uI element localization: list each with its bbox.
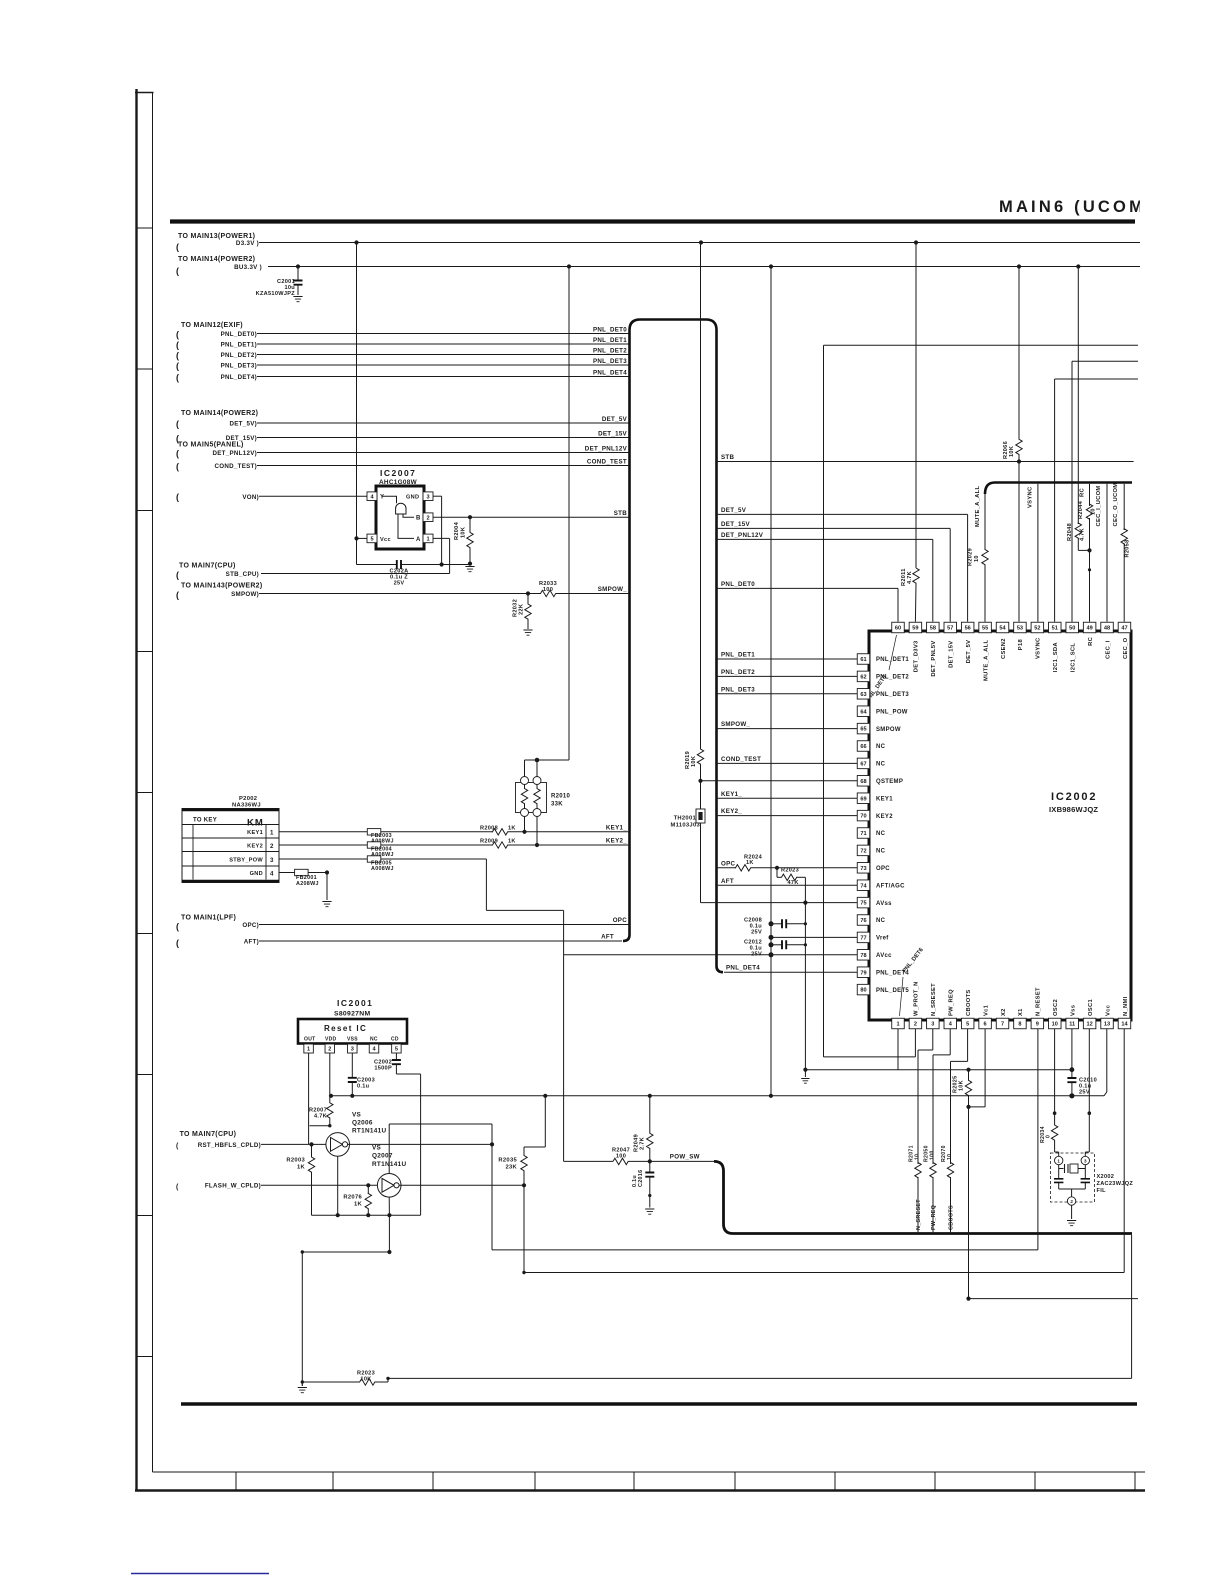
svg-text:69: 69 xyxy=(860,796,866,802)
svg-text:OPC): OPC) xyxy=(242,922,259,929)
svg-text:80: 80 xyxy=(860,988,866,994)
junction BU3.3V / R2066 xyxy=(1017,264,1021,268)
svg-text:R2048: R2048 xyxy=(1067,523,1073,541)
svg-text:KEY1_: KEY1_ xyxy=(606,824,627,831)
wire IC2001 OUT drop xyxy=(308,1053,310,1144)
svg-text:R2058: R2058 xyxy=(1125,540,1131,558)
junction R2004 top xyxy=(468,515,472,519)
resistor R2035 23K xyxy=(544,1096,546,1147)
svg-text:KEY2: KEY2 xyxy=(876,814,893,820)
wire KEY1 from P2002 xyxy=(279,831,493,833)
svg-text:ZAC23WJQZ: ZAC23WJQZ xyxy=(1097,1181,1134,1187)
svg-text:SMPOW_: SMPOW_ xyxy=(598,586,628,593)
resistor R2044 10 xyxy=(1086,504,1092,519)
svg-text:(: ( xyxy=(176,361,179,371)
border frame bottom inner ruler xyxy=(153,1471,1146,1473)
svg-text:IC2007: IC2007 xyxy=(380,468,416,478)
IC2002 pin 4 box xyxy=(944,1018,957,1029)
svg-text:SMPOW: SMPOW xyxy=(876,727,901,733)
X2002 cap right xyxy=(1084,1169,1086,1179)
svg-text:COND_TEST: COND_TEST xyxy=(721,756,761,763)
svg-text:R2035: R2035 xyxy=(498,1158,517,1164)
X2002 center join xyxy=(1059,1188,1086,1190)
wire pin3 N_SRESET xyxy=(932,1029,934,1050)
svg-text:PNL_DET5: PNL_DET5 xyxy=(876,988,909,994)
resistor R2070 10 xyxy=(947,1163,953,1178)
svg-text:KEY2: KEY2 xyxy=(247,844,263,850)
svg-text:STB: STB xyxy=(614,510,628,517)
ground R2032 xyxy=(527,622,529,629)
svg-text:TO MAIN5(PANEL): TO MAIN5(PANEL) xyxy=(178,442,244,449)
svg-text:(: ( xyxy=(176,570,179,580)
svg-text:76: 76 xyxy=(860,918,866,924)
svg-text:65: 65 xyxy=(860,727,866,733)
svg-text:DET_PNL12V: DET_PNL12V xyxy=(585,445,628,452)
svg-text:12: 12 xyxy=(1087,1022,1093,1028)
IC2002 pin 13 box xyxy=(1101,1018,1114,1029)
resistor R2024 1K xyxy=(736,865,752,871)
junction rail/VSS cap xyxy=(350,1094,354,1098)
IC2002 pin 67 box xyxy=(857,758,870,769)
svg-text:PNL_DET1): PNL_DET1) xyxy=(221,341,257,348)
svg-text:PNL_DET2): PNL_DET2) xyxy=(221,352,257,359)
bus heavy POW_SW xyxy=(714,1161,1132,1233)
junction D3.3V / R2011 xyxy=(914,240,918,244)
X2002 crystal symbol xyxy=(1058,1165,1060,1169)
svg-text:2.7K: 2.7K xyxy=(640,1137,646,1150)
IC2002 pin 76 box xyxy=(857,915,870,926)
IC2001 pin 1 box xyxy=(304,1044,314,1053)
IC2002 pin 49 box xyxy=(1083,622,1096,633)
svg-text:4.7K: 4.7K xyxy=(907,571,913,584)
wire pin5 CBOOTS xyxy=(967,1029,969,1062)
junction Vcc drop xyxy=(354,536,358,540)
connector P2002 table frame xyxy=(182,809,279,883)
svg-text:61: 61 xyxy=(860,657,866,663)
capacitor C2008 xyxy=(769,921,774,926)
svg-text:60: 60 xyxy=(895,626,901,632)
junction rail/VDD xyxy=(329,1094,333,1098)
IC2002 pin 74 box xyxy=(857,880,870,891)
IC2002 pin 69 box xyxy=(857,793,870,804)
svg-text:1: 1 xyxy=(270,830,274,837)
wire RC drop xyxy=(1089,484,1091,506)
svg-text:X2002: X2002 xyxy=(1097,1174,1115,1180)
svg-text:N_SRESET: N_SRESET xyxy=(931,983,937,1016)
svg-text:DET_5V: DET_5V xyxy=(721,507,747,514)
junction rail/cap rail xyxy=(769,1094,773,1098)
svg-text:70: 70 xyxy=(860,814,866,820)
svg-text:50: 50 xyxy=(1069,626,1075,632)
IC2002 pin 48 box xyxy=(1101,622,1114,633)
IC2001 pin 2 box xyxy=(325,1044,335,1053)
svg-text:7: 7 xyxy=(1001,1022,1004,1028)
svg-text:79: 79 xyxy=(860,970,866,976)
resistor R2019 10K xyxy=(700,243,702,749)
svg-text:0.1u Z: 0.1u Z xyxy=(390,575,408,581)
junction GND pin drop xyxy=(440,562,444,566)
svg-text:MAIN6 (UCOM): MAIN6 (UCOM) xyxy=(999,198,1155,216)
svg-text:NC: NC xyxy=(370,1037,378,1043)
svg-text:49: 49 xyxy=(1087,626,1093,632)
svg-text:CEC_I_UCOM: CEC_I_UCOM xyxy=(1096,485,1102,526)
svg-text:DET_D3V3: DET_D3V3 xyxy=(914,640,920,672)
wire pin12 OSC1 xyxy=(1088,1029,1090,1113)
svg-text:6: 6 xyxy=(984,1022,987,1028)
svg-text:5: 5 xyxy=(370,537,373,543)
svg-text:R2023: R2023 xyxy=(781,867,799,873)
svg-text:FIL: FIL xyxy=(1097,1188,1107,1194)
resistor R2011 4.7K xyxy=(915,243,917,569)
svg-text:100: 100 xyxy=(543,587,553,593)
svg-text:47: 47 xyxy=(1121,626,1127,632)
svg-text:GND: GND xyxy=(250,871,263,877)
resistor R2066 10K xyxy=(1018,267,1020,439)
svg-text:73: 73 xyxy=(860,866,866,872)
svg-text:TO MAIN14(POWER2): TO MAIN14(POWER2) xyxy=(181,410,258,417)
IC2002 pin 78 box xyxy=(857,950,870,961)
thermistor TH2001 M1103J03 xyxy=(700,781,702,809)
wire emitter rail xyxy=(312,1214,421,1216)
wire to key ground xyxy=(326,873,328,901)
wire IC2007 Vcc decoupling drop xyxy=(356,538,358,564)
svg-text:10K: 10K xyxy=(959,1080,965,1091)
svg-text:AVss: AVss xyxy=(876,901,892,907)
svg-text:VS: VS xyxy=(372,1145,382,1152)
svg-text:Vref: Vref xyxy=(876,936,889,942)
wire AFT to bus xyxy=(259,940,622,942)
svg-text:1: 1 xyxy=(1057,1159,1060,1164)
svg-text:CSEN2: CSEN2 xyxy=(1001,638,1007,659)
resistor R2076 1K xyxy=(367,1185,369,1194)
wire R2010 to KEY2 xyxy=(536,817,538,846)
svg-text:1K: 1K xyxy=(297,1165,306,1171)
svg-text:64: 64 xyxy=(860,709,867,715)
svg-text:(: ( xyxy=(176,449,179,459)
capacitor C2001 xyxy=(297,267,299,281)
svg-text:NC: NC xyxy=(876,918,886,924)
svg-text:QSTEMP: QSTEMP xyxy=(876,779,903,785)
svg-text:KEY1: KEY1 xyxy=(247,830,263,836)
svg-text:NC: NC xyxy=(876,831,886,837)
bus top and right leg xyxy=(640,320,723,973)
resistor R2023 47K xyxy=(776,868,778,878)
bus left leg xyxy=(623,320,640,942)
IC2002 pin 80 box xyxy=(857,984,870,995)
svg-text:(: ( xyxy=(176,492,179,502)
svg-text:N_SRESET: N_SRESET xyxy=(916,1199,922,1230)
IC2002 pin 72 box xyxy=(857,845,870,856)
svg-text:5: 5 xyxy=(395,1047,398,1053)
resistor R2071 10 xyxy=(915,1163,921,1178)
wire DET_5V to bus xyxy=(257,422,630,424)
svg-text:VS: VS xyxy=(352,1112,362,1119)
junction base Q2006 xyxy=(309,1142,313,1146)
wire main rail xyxy=(331,1095,1104,1097)
svg-text:CEC_I: CEC_I xyxy=(1105,640,1111,659)
IC2002 pin 70 box xyxy=(857,810,870,821)
svg-text:DET_PNL5V: DET_PNL5V xyxy=(931,640,937,676)
svg-text:(: ( xyxy=(176,351,179,361)
svg-text:DET_PNL12V: DET_PNL12V xyxy=(721,532,764,539)
svg-text:10K: 10K xyxy=(461,527,467,538)
svg-text:KEY1_: KEY1_ xyxy=(721,791,742,798)
svg-text:NC: NC xyxy=(876,849,886,855)
IC2002 pin 51 box xyxy=(1049,622,1062,633)
svg-text:R2029: R2029 xyxy=(968,548,974,566)
svg-text:4.7K: 4.7K xyxy=(1080,528,1086,541)
wire PNL_DET2 to bus xyxy=(257,354,630,356)
svg-text:MUTE_A_ALL: MUTE_A_ALL xyxy=(983,640,989,681)
svg-text:48: 48 xyxy=(1104,626,1110,632)
svg-text:TO KEY: TO KEY xyxy=(193,818,217,824)
resistor R2058 xyxy=(1121,529,1127,544)
svg-text:33K: 33K xyxy=(551,802,563,808)
wire D3.3V to IC2007 Vcc xyxy=(356,243,358,539)
svg-text:P2002: P2002 xyxy=(239,796,257,802)
wire IC2007 A to STB_CPU xyxy=(433,537,450,539)
IC2002 pin 50 box xyxy=(1066,622,1079,633)
svg-text:10: 10 xyxy=(915,1154,921,1160)
svg-text:3: 3 xyxy=(426,494,429,500)
junction GND bead xyxy=(325,870,329,874)
IC2007 pin 2 B xyxy=(423,513,433,522)
junction rail/R2049 xyxy=(648,1094,652,1098)
IC2002 pin 11 box xyxy=(1066,1018,1079,1029)
junction tie/R2025 xyxy=(966,1068,970,1072)
IC2002 pin 66 box xyxy=(857,741,870,752)
svg-text:R2008: R2008 xyxy=(480,825,498,831)
svg-text:BU3.3V ): BU3.3V ) xyxy=(234,264,262,271)
svg-text:STB: STB xyxy=(721,454,735,461)
IC2002 pin 53 box xyxy=(1014,622,1026,633)
wire SMPOW_ exit xyxy=(717,728,858,730)
svg-text:S80927NM: S80927NM xyxy=(334,1011,370,1018)
svg-text:STBY_POW: STBY_POW xyxy=(229,858,263,864)
IC2002 pin 47 box xyxy=(1118,622,1131,633)
svg-text:R2003: R2003 xyxy=(286,1158,305,1164)
junction R2048/RC xyxy=(1087,548,1091,552)
svg-text:IC2001: IC2001 xyxy=(337,998,373,1008)
IC2002 pin 14 box xyxy=(1118,1018,1131,1029)
wire C202A to ground node xyxy=(401,564,470,566)
svg-text:3: 3 xyxy=(270,857,274,864)
bus heavy top right xyxy=(985,483,1132,495)
svg-text:3: 3 xyxy=(351,1047,354,1053)
svg-text:10: 10 xyxy=(1052,1022,1058,1028)
wire IC2001 VDD drop xyxy=(329,1053,331,1096)
junction rail Q2006 xyxy=(336,1213,340,1217)
IC2001 pin 4 box xyxy=(369,1044,379,1053)
svg-text:2: 2 xyxy=(328,1047,331,1053)
svg-text:VSYNC: VSYNC xyxy=(1036,637,1042,659)
svg-text:(: ( xyxy=(176,1143,179,1150)
wire net D3.3V xyxy=(259,242,1140,244)
svg-text:Y: Y xyxy=(380,495,384,501)
wire R2010 pullup from BU3.3V xyxy=(568,267,570,761)
svg-text:DET_5V: DET_5V xyxy=(602,416,628,423)
ground IC2007/R2004 xyxy=(465,567,474,572)
svg-text:14: 14 xyxy=(1121,1022,1128,1028)
ground C2016 xyxy=(645,1209,654,1214)
svg-text:A: A xyxy=(416,537,421,543)
svg-text:R2004: R2004 xyxy=(454,521,460,540)
wire pin9 N_RESET xyxy=(1037,1029,1039,1250)
wire DET_15V to bus xyxy=(257,437,630,439)
svg-text:KM: KM xyxy=(247,818,264,829)
svg-text:0: 0 xyxy=(1046,1135,1052,1138)
IC2007 pin 4 Y xyxy=(367,492,377,501)
IC2002 pin 3 box xyxy=(927,1018,940,1029)
IC2002 pin 9 box xyxy=(1031,1018,1044,1029)
svg-text:W_PROT_N: W_PROT_N xyxy=(914,981,920,1016)
resistor R2032 22K xyxy=(527,594,529,603)
svg-text:(: ( xyxy=(176,330,179,340)
wire R2035 drop to N_NMI run xyxy=(523,1185,525,1272)
svg-text:CBOOTS: CBOOTS xyxy=(966,989,972,1016)
svg-text:B: B xyxy=(416,516,421,522)
svg-text:5: 5 xyxy=(966,1022,969,1028)
svg-text:I2C1_SCL: I2C1_SCL xyxy=(1071,643,1077,673)
svg-text:75: 75 xyxy=(860,901,866,907)
wire emitter drop to ground run xyxy=(388,1215,390,1252)
svg-text:1K: 1K xyxy=(508,839,516,845)
svg-text:PNL_DET2: PNL_DET2 xyxy=(721,669,755,676)
svg-text:N_RESET: N_RESET xyxy=(1036,987,1042,1016)
junction rail/C2010 xyxy=(1069,1093,1074,1098)
IC2002 pin 60 box xyxy=(892,622,905,633)
svg-text:11: 11 xyxy=(1069,1022,1075,1028)
svg-text:TO MAIN13(POWER1): TO MAIN13(POWER1) xyxy=(178,233,255,240)
wire KEY2 from P2002 xyxy=(279,844,493,846)
IC2002 pin 8 box xyxy=(1014,1018,1026,1029)
wire C2002 to emitter rail xyxy=(396,1073,420,1075)
svg-text:CBOOTS: CBOOTS xyxy=(949,1205,955,1230)
svg-text:4.7K: 4.7K xyxy=(314,1114,327,1120)
junction POW_SW/R2049 xyxy=(648,1159,652,1163)
wire R2007 to OUT xyxy=(310,1125,330,1127)
svg-text:2: 2 xyxy=(270,843,274,850)
IC IC2002 body xyxy=(869,631,1131,1020)
svg-text:4: 4 xyxy=(270,871,274,878)
capacitor C2010 0.1u xyxy=(1071,1070,1073,1078)
svg-text:PNL_DET3: PNL_DET3 xyxy=(876,692,909,698)
ferrite bead FB2003 xyxy=(367,829,381,835)
resistor R2049 2.7K xyxy=(649,1096,651,1133)
svg-text:VON): VON) xyxy=(242,494,259,501)
svg-text:FLASH_W_CPLD): FLASH_W_CPLD) xyxy=(205,1183,261,1190)
svg-text:100: 100 xyxy=(930,1150,936,1160)
svg-text:PNL_DET0: PNL_DET0 xyxy=(721,581,755,588)
svg-text:R2009: R2009 xyxy=(480,839,498,845)
transistor Q2007 RT1N141U xyxy=(377,1174,401,1198)
svg-text:PNL_DET0): PNL_DET0) xyxy=(221,331,257,338)
top heavy rule xyxy=(170,219,1135,223)
svg-text:66: 66 xyxy=(860,744,866,750)
IC2001 pin 3 box xyxy=(348,1044,358,1053)
svg-text:A208WJ: A208WJ xyxy=(296,881,319,887)
svg-text:3: 3 xyxy=(1084,1159,1087,1164)
svg-text:TO MAIN14(POWER2): TO MAIN14(POWER2) xyxy=(178,256,255,263)
wire cap node vertical x805 xyxy=(804,903,806,1070)
resistor R2008 1K xyxy=(493,829,509,835)
wire PNL_DET3 exit xyxy=(717,693,858,695)
wire PNL_DET4 to bus xyxy=(257,376,630,378)
capacitor C2003 0.1u xyxy=(348,1078,357,1082)
wire X2002 ground xyxy=(1071,1205,1073,1219)
wire QSTEMP xyxy=(701,780,858,782)
svg-text:(: ( xyxy=(176,373,179,383)
IC2007 pin 1 A xyxy=(423,534,433,543)
junction R2019/QSTEMP xyxy=(698,779,702,783)
capacitor C2016 0.1u xyxy=(649,1161,651,1172)
svg-text:P18: P18 xyxy=(1018,639,1024,651)
svg-text:KEY1: KEY1 xyxy=(876,796,893,802)
bottom heavy rule xyxy=(181,1402,1137,1406)
wire DET_PNL12V to bus xyxy=(257,452,630,454)
IC2002 pin 61 box xyxy=(857,654,870,665)
svg-text:NC: NC xyxy=(876,762,886,768)
capacitor C2012 xyxy=(769,942,774,947)
svg-text:RT1N141U: RT1N141U xyxy=(352,1128,386,1135)
resistor R2023 10K xyxy=(302,1381,357,1383)
IC2002 pin 10 box xyxy=(1049,1018,1062,1029)
svg-text:53: 53 xyxy=(1017,626,1023,632)
X2002 cap left xyxy=(1058,1169,1060,1179)
svg-text:AFT: AFT xyxy=(721,878,734,885)
svg-text:1K: 1K xyxy=(508,825,516,831)
junction KEY2/R2010 xyxy=(535,843,539,847)
svg-text:VSS: VSS xyxy=(347,1037,358,1043)
svg-text:AFT: AFT xyxy=(601,934,614,941)
svg-text:A008WJ: A008WJ xyxy=(371,866,394,872)
svg-text:PNL_DET1: PNL_DET1 xyxy=(593,337,627,344)
svg-text:R2076: R2076 xyxy=(343,1195,362,1201)
junction D3.3V / IC2007 Vcc xyxy=(354,240,358,244)
ground bottom xyxy=(301,1382,303,1386)
ferrite bead FB2001 xyxy=(295,869,309,875)
resistor R2029 10 xyxy=(982,550,988,566)
svg-text:PNL_DET4: PNL_DET4 xyxy=(593,369,627,376)
capacitor C202A xyxy=(397,560,401,569)
svg-text:9: 9 xyxy=(1036,1022,1039,1028)
transistor Q2006 RT1N141U xyxy=(326,1133,350,1157)
svg-text:58: 58 xyxy=(930,626,936,632)
wire AFT exit xyxy=(717,884,858,886)
IC2002 pin 57 box xyxy=(944,622,957,633)
IC2002 pin 59 box xyxy=(909,622,922,633)
junction D3.3V / R2019 xyxy=(699,240,703,244)
svg-text:51: 51 xyxy=(1052,626,1058,632)
wire net STB to edge xyxy=(717,461,1134,463)
svg-text:(: ( xyxy=(176,922,179,932)
svg-text:PNL_DET3: PNL_DET3 xyxy=(593,358,627,365)
svg-text:OSC2: OSC2 xyxy=(1053,999,1059,1016)
svg-text:KEY2_: KEY2_ xyxy=(721,808,742,815)
IC IC2001 body xyxy=(298,1019,407,1044)
IC2002 pin 68 box xyxy=(857,776,870,787)
wire R2071 to bus xyxy=(917,1177,919,1232)
svg-text:PNL_DET4): PNL_DET4) xyxy=(221,374,257,381)
wire COND_TEST to bus xyxy=(257,465,630,467)
IC2002 pin 75 box xyxy=(857,897,870,908)
svg-text:C2016: C2016 xyxy=(638,1170,644,1187)
IC2002 pin 1 box xyxy=(892,1018,905,1029)
X2002 terminal 3 xyxy=(1081,1156,1089,1164)
wire Q2007 out xyxy=(399,1184,524,1186)
border frame left inner xyxy=(152,93,154,1473)
wire pin4 PW_REQ xyxy=(949,1029,951,1055)
